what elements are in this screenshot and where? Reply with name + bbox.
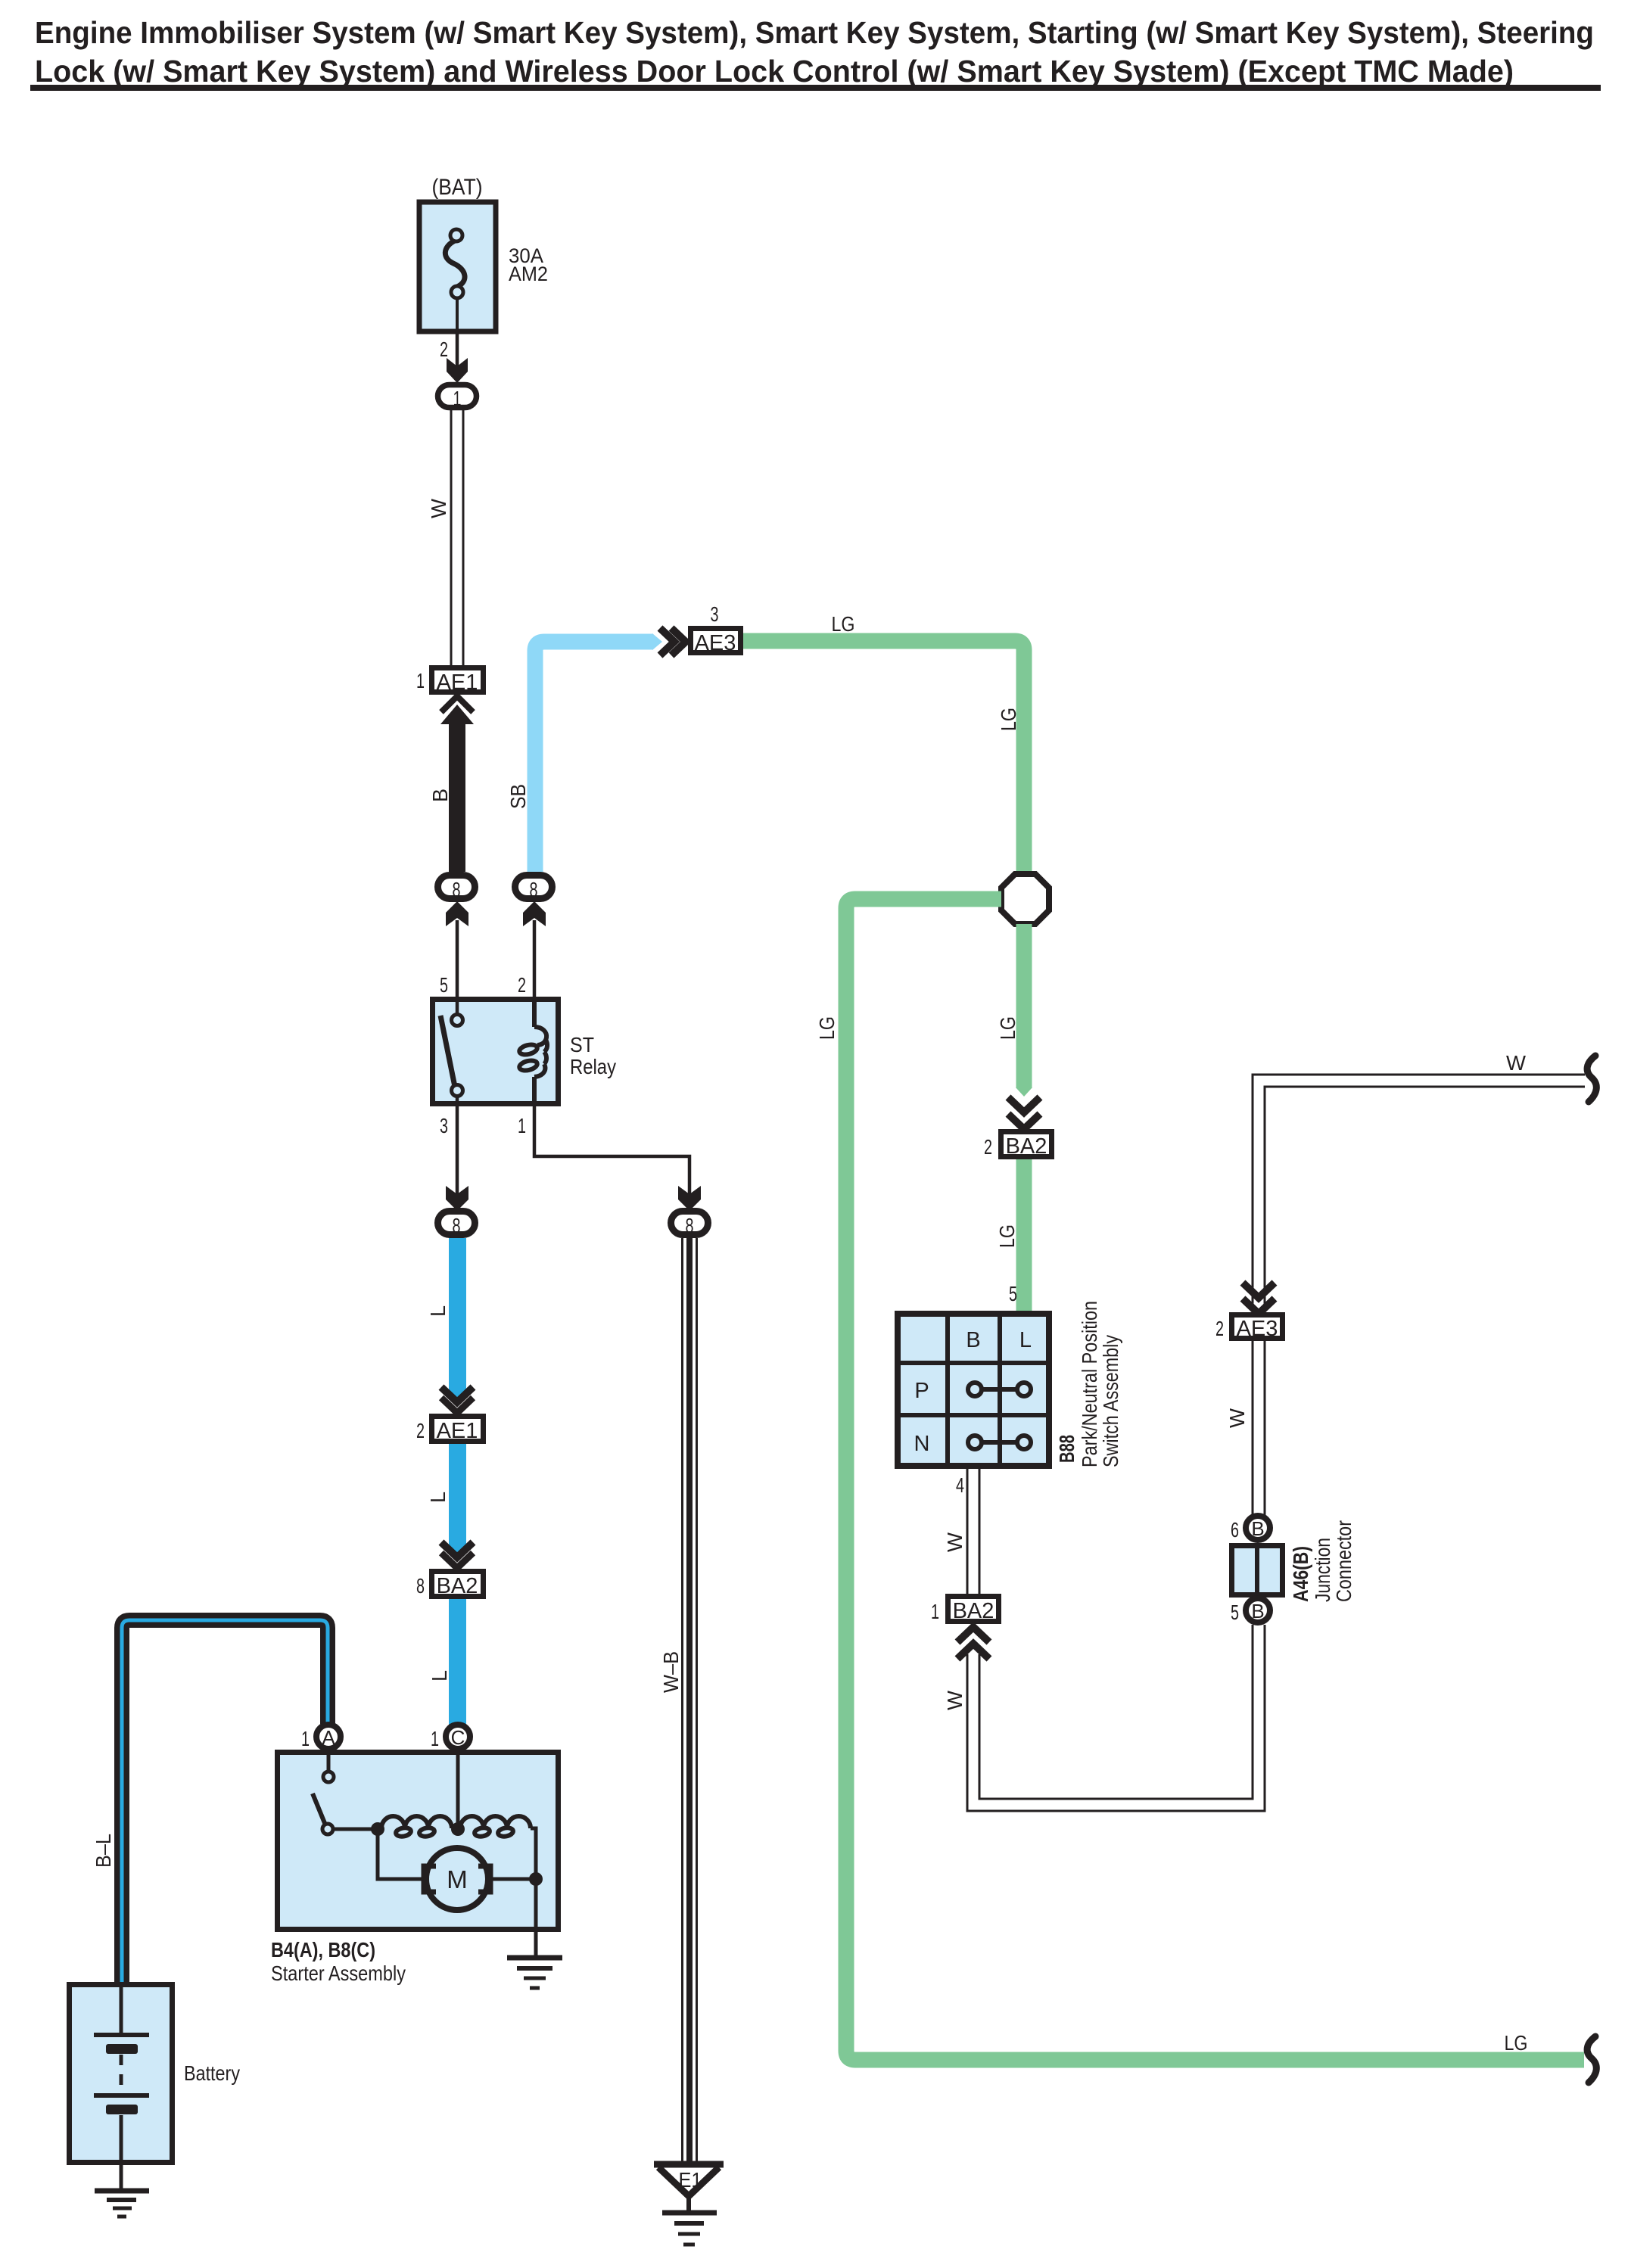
svg-text:B4(A), B8(C): B4(A), B8(C) [271, 1938, 375, 1962]
wire L (left oval 8 down to AE1 pin2) [449, 1238, 466, 1391]
starter field coil 2 [460, 1816, 531, 1837]
wire W-B (right oval 8 down to E1) [683, 1238, 697, 2164]
connector oval 8 (left, top) [438, 876, 475, 899]
svg-text:LG: LG [815, 1016, 839, 1040]
wire LG (BA2 to B88 pin 5) [1016, 1159, 1032, 1311]
wire motor right to ground leg [488, 1878, 536, 1881]
svg-text:A: A [322, 1726, 335, 1749]
svg-text:L: L [428, 1670, 451, 1682]
svg-text:1: 1 [518, 1114, 526, 1137]
connector oval 8 (right bottom) [671, 1212, 708, 1235]
svg-text:2: 2 [1215, 1317, 1224, 1340]
svg-text:5: 5 [1009, 1282, 1017, 1305]
svg-text:ST: ST [570, 1033, 594, 1056]
svg-text:LG: LG [1505, 2031, 1528, 2055]
wire coil2 to right leg [531, 1828, 536, 1875]
connector BA2 pin 1 [948, 1597, 999, 1622]
svg-text:C: C [451, 1726, 465, 1749]
svg-text:5: 5 [1231, 1601, 1239, 1624]
battery internals [94, 1984, 149, 2162]
wire SB (from oval 8 up and right to AE3) [535, 642, 653, 872]
svg-text:3: 3 [440, 1114, 448, 1137]
B88 contact P row [968, 1383, 1031, 1396]
wire L arrow tip [449, 1390, 466, 1399]
battery ground bars [95, 2191, 149, 2217]
connector AE3 pin 2 [1232, 1315, 1283, 1339]
svg-text:B: B [1251, 1517, 1264, 1540]
svg-text:A46(B): A46(B) [1289, 1546, 1312, 1602]
wire W (B88 pin 4 down to BA2 pin 1) [967, 1469, 979, 1594]
svg-text:W: W [427, 498, 450, 518]
wire continuation squiggle (W) [1587, 1056, 1596, 1102]
svg-text:LG: LG [995, 1224, 1019, 1248]
wire LG (octagon down to BA2) [1016, 924, 1032, 1088]
wire B (black) [449, 723, 465, 872]
arrow down into oval 8 (right bottom) [678, 1186, 701, 1211]
svg-text:1: 1 [416, 669, 425, 692]
connector oval 8 (right, top of SB wire) [515, 876, 552, 899]
svg-text:AE1: AE1 [437, 670, 478, 695]
wire battery ground leg [120, 2162, 123, 2190]
battery plate bar 2 [106, 2105, 138, 2114]
wire W (BA2 pin1 down, right, up to junction connector) [967, 1625, 1265, 1811]
battery box [70, 1985, 173, 2163]
wire fuse pin 2 [456, 331, 459, 375]
svg-text:BA2: BA2 [437, 1574, 478, 1598]
svg-text:Switch Assembly: Switch Assembly [1099, 1335, 1122, 1467]
arrow up into right oval 8 [523, 901, 546, 926]
svg-text:B: B [1251, 1600, 1264, 1622]
wire L arrow tip [449, 1545, 466, 1554]
wire W (AE3 pin2 down to junction connector) [1253, 1339, 1265, 1515]
svg-text:2: 2 [416, 1419, 425, 1442]
ground E1 triangle [654, 2164, 724, 2211]
fuse AM2 30A box [419, 202, 496, 331]
svg-text:Park/Neutral Position: Park/Neutral Position [1078, 1301, 1101, 1467]
svg-text:B88: B88 [1055, 1435, 1079, 1463]
svg-text:AE3: AE3 [695, 631, 736, 655]
svg-text:W: W [943, 1532, 966, 1552]
B88 grid lines [898, 1314, 1049, 1466]
svg-text:W: W [1506, 1051, 1527, 1075]
svg-text:8: 8 [453, 878, 461, 901]
starter switch [313, 1749, 378, 1834]
svg-text:1: 1 [931, 1600, 939, 1623]
svg-text:W–B: W–B [659, 1651, 683, 1693]
svg-text:N: N [914, 1432, 930, 1456]
svg-text:B: B [428, 789, 452, 802]
svg-text:AE3: AE3 [1237, 1317, 1278, 1341]
svg-text:BA2: BA2 [953, 1599, 994, 1623]
svg-text:(BAT): (BAT) [432, 175, 483, 200]
chevrons into BA2 pin1 (up) [957, 1627, 989, 1642]
junction connector terminal B (bottom) [1246, 1598, 1270, 1622]
chevrons into AE3 pin2 (down) [1243, 1283, 1275, 1298]
svg-text:M: M [447, 1865, 468, 1893]
chevrons into BA2 (down) [1008, 1097, 1040, 1112]
connector oval 8 (left bottom) [438, 1212, 475, 1235]
starter assembly box [278, 1753, 559, 1930]
svg-text:8: 8 [686, 1214, 694, 1237]
svg-text:2: 2 [984, 1135, 992, 1159]
svg-text:L: L [426, 1492, 450, 1503]
svg-text:Lock (w/ Smart Key System) and: Lock (w/ Smart Key System) and Wireless … [35, 54, 1514, 89]
starter junction dot (right) [529, 1872, 543, 1886]
title underline [30, 85, 1601, 91]
chevrons into AE3 (right) [660, 628, 674, 655]
splice octagon node [1001, 874, 1049, 924]
battery plate bar 1 [106, 2044, 138, 2054]
svg-text:Relay: Relay [570, 1055, 616, 1078]
B88 contact N row [968, 1436, 1031, 1449]
starter motor M [426, 1848, 488, 1910]
wire LG arrow tip into BA2 [1016, 1087, 1032, 1097]
ground E1 bars [662, 2213, 717, 2245]
wire starter C to coil junction [456, 1749, 460, 1825]
connector oval 1 [438, 385, 477, 408]
junction connector A46(B) box [1232, 1546, 1283, 1595]
connector AE3 pin 3 [691, 629, 741, 653]
starter junction dot (left) [371, 1822, 384, 1836]
relay coil [518, 999, 547, 1106]
wire relay pin 1 down and right [534, 1106, 689, 1196]
starter field coil 1 [381, 1816, 452, 1837]
svg-text:L: L [426, 1305, 450, 1317]
wire L (BA2 pin8 down to starter C) [449, 1599, 466, 1725]
wire L (AE1 pin2 to BA2 pin8) [449, 1444, 466, 1546]
svg-text:P: P [914, 1379, 929, 1403]
arrow down into oval 8 (left bottom) [446, 1186, 468, 1211]
wire starter ground leg [534, 1879, 538, 1956]
svg-text:LG: LG [832, 612, 855, 636]
starter ground bars [507, 1958, 562, 1988]
chevrons into BA2 pin8 (down) [441, 1542, 473, 1557]
svg-text:B–L: B–L [92, 1834, 115, 1868]
svg-text:4: 4 [956, 1473, 964, 1497]
svg-text:5: 5 [440, 973, 448, 997]
svg-text:AE1: AE1 [437, 1419, 478, 1443]
svg-text:8: 8 [416, 1574, 425, 1598]
wire SB arrow tip [652, 633, 662, 650]
wire relay pin 2 [533, 920, 537, 997]
relay switch [440, 999, 463, 1106]
svg-text:LG: LG [997, 708, 1020, 731]
wire LG (octagon left, down and to bottom right) [846, 899, 1584, 2060]
wire B arrowhead [440, 705, 474, 724]
svg-text:SB: SB [506, 784, 530, 809]
starter terminal A [316, 1725, 341, 1749]
svg-text:BA2: BA2 [1006, 1134, 1047, 1159]
svg-text:AM2: AM2 [509, 263, 548, 285]
chevrons into AE1 pin2 (down) [441, 1387, 473, 1402]
svg-text:Engine Immobiliser System (w/: Engine Immobiliser System (w/ Smart Key … [35, 15, 1594, 50]
svg-text:B: B [966, 1328, 980, 1352]
wire continuation squiggle (LG) [1587, 2036, 1596, 2083]
svg-text:2: 2 [440, 338, 448, 361]
svg-text:2: 2 [518, 973, 526, 997]
junction connector divider [1255, 1543, 1259, 1598]
svg-text:6: 6 [1231, 1518, 1239, 1542]
svg-text:E1: E1 [679, 2168, 702, 2192]
motor brush right [478, 1866, 490, 1892]
svg-text:8: 8 [530, 878, 538, 901]
svg-text:Battery: Battery [184, 2061, 240, 2085]
connector BA2 pin 2 [1001, 1132, 1052, 1157]
svg-text:Starter Assembly: Starter Assembly [271, 1962, 406, 1985]
svg-text:1: 1 [431, 1727, 439, 1750]
wire relay pin 3 down [456, 1106, 459, 1196]
motor brush left [424, 1866, 436, 1892]
wire relay pin 5 [456, 920, 459, 997]
wire B-L (battery to starter A) [122, 1620, 328, 1982]
svg-text:3: 3 [711, 602, 719, 626]
svg-text:1: 1 [301, 1727, 310, 1750]
relay ST box [433, 1000, 559, 1104]
arrow into connector 1 [447, 358, 468, 383]
starter junction dot (C) [451, 1822, 465, 1836]
svg-text:Connector: Connector [1332, 1520, 1356, 1602]
svg-text:L: L [1019, 1328, 1032, 1352]
svg-text:8: 8 [453, 1214, 461, 1237]
wire LG (AE3 to octagon) [743, 641, 1024, 871]
connector AE1 pin 1 [432, 668, 484, 692]
connector BA2 pin 8 [432, 1572, 484, 1597]
fuse element symbol [445, 229, 465, 331]
svg-text:W: W [1225, 1408, 1249, 1428]
connector AE1 pin 2 [432, 1417, 484, 1442]
junction connector terminal B (top) [1246, 1516, 1270, 1540]
arrow up into oval 8 [446, 901, 468, 926]
wire W (fuse to AE1) [451, 410, 463, 665]
svg-text:Junction: Junction [1311, 1538, 1334, 1602]
wire left branch down to motor [378, 1829, 424, 1879]
chevron into AE1 (up) [441, 696, 473, 712]
svg-text:W: W [943, 1690, 966, 1710]
starter terminal C [446, 1725, 470, 1749]
svg-text:1: 1 [453, 387, 462, 410]
wire W (top right horizontal from AE3 pin2) [1253, 1075, 1585, 1315]
B88 park/neutral switch box [898, 1314, 1049, 1466]
svg-text:LG: LG [996, 1016, 1019, 1040]
